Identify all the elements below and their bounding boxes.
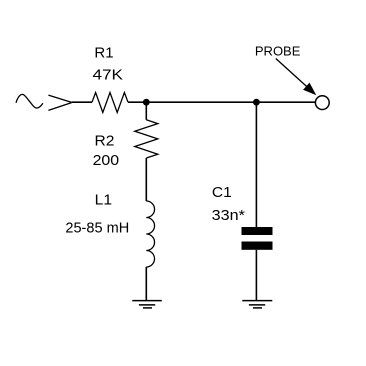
svg-text:PROBE: PROBE: [255, 44, 301, 59]
AC source sine squiggle: [16, 94, 43, 108]
inductor L1: [146, 201, 154, 267]
ground (C1 branch): [242, 301, 272, 308]
capacitor C1 top plate: [242, 227, 273, 235]
wire: node A down to R2: [145, 102, 147, 120]
node A junction dot: [143, 99, 150, 106]
svg-text:47K: 47K: [93, 67, 124, 84]
svg-text:33n*: 33n*: [212, 207, 245, 224]
resistor R2: [135, 120, 158, 158]
wire: R1 to probe terminal (top rail): [128, 101, 316, 103]
wire: C1 to ground: [255, 250, 257, 301]
probe arrowhead: [303, 83, 316, 96]
svg-text:L1: L1: [95, 192, 112, 209]
node B junction dot: [253, 99, 260, 106]
input chevron: [48, 95, 71, 110]
svg-text:R2: R2: [95, 133, 115, 150]
svg-text:R1: R1: [94, 45, 113, 62]
svg-text:200: 200: [93, 152, 120, 169]
capacitor C1 bottom plate: [242, 242, 273, 250]
wire: node B down to C1: [255, 102, 257, 227]
probe arrow line: [276, 59, 310, 90]
wire: chevron to R1: [72, 101, 92, 103]
wire: L1 to ground: [145, 267, 147, 301]
resistor R1: [92, 93, 128, 113]
wire: R2 to L1: [145, 158, 147, 201]
ground (L1 branch): [132, 301, 162, 308]
svg-text:C1: C1: [212, 184, 232, 201]
probe terminal circle: [315, 96, 329, 110]
svg-text:25-85 mH: 25-85 mH: [65, 220, 129, 237]
